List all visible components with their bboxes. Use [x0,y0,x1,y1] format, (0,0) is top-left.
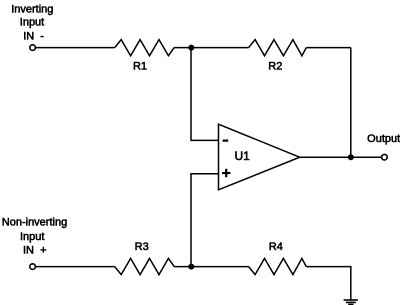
svg-text:IN +: IN + [23,245,47,257]
svg-text:Input: Input [20,16,44,28]
terminal Output [382,154,388,160]
op-amp U1 [219,124,300,190]
terminal IN+ [30,264,36,270]
svg-text:Output: Output [367,133,400,145]
node B junction dot bottom [188,264,194,270]
svg-text:Non-inverting: Non-inverting [2,216,67,228]
svg-text:Inverting: Inverting [11,3,53,15]
op-amp minus pin symbol [223,140,229,142]
resistor R1 [115,40,175,56]
svg-text:R2: R2 [268,61,282,73]
wire R4 to ground corner [306,267,351,300]
wire IN+ to R3 [35,266,114,268]
wire op-amp output [300,156,382,158]
terminal IN- [30,45,36,51]
svg-text:IN -: IN - [23,30,44,42]
wire R3 to R4 [174,266,248,268]
op-amp plus pin symbol [222,169,230,177]
label Inverting Input [11,3,53,42]
wire IN- to R1 [35,47,114,49]
svg-text:R4: R4 [269,241,283,253]
wire R2 to right corner [306,47,351,49]
resistor R3 [115,258,175,274]
resistor R4 [249,258,307,274]
wire R1 to R2 [174,47,248,49]
svg-text:Input: Input [20,231,44,243]
resistor R2 [249,40,307,56]
svg-text:U1: U1 [235,149,251,163]
svg-text:R1: R1 [133,61,147,73]
wire junction down to inverting input [191,48,219,141]
node output junction dot [348,154,354,160]
ground [344,300,358,304]
wire noninverting input feed [191,174,219,267]
wire right vertical feedback [350,48,352,158]
svg-text:R3: R3 [135,241,149,253]
label Non-inverting Input [2,216,67,256]
node A junction dot top [188,45,194,51]
